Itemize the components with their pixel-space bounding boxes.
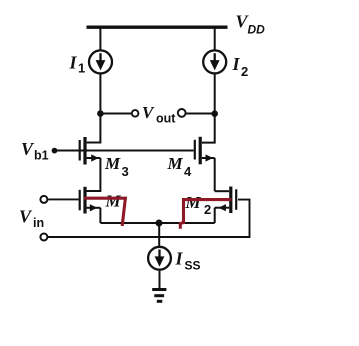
svg-text:2: 2	[241, 64, 248, 79]
svg-text:V: V	[21, 139, 35, 159]
transistor M4	[195, 114, 215, 165]
wire M1 source down to tail	[99, 208, 101, 223]
current source ISS	[148, 247, 171, 270]
M2 drain wire	[215, 190, 230, 192]
wire Vout+ terminal to node B	[185, 113, 214, 115]
M4 channel bar	[199, 137, 202, 165]
label Vin	[19, 207, 44, 231]
M1 source wire with arrow	[87, 207, 101, 209]
M2 channel bar	[229, 187, 232, 214]
terminal Vin+ open circle	[40, 196, 47, 203]
transistor M3	[80, 137, 101, 165]
svg-text:M: M	[167, 154, 184, 173]
svg-text:I: I	[175, 249, 184, 269]
svg-text:1: 1	[78, 61, 85, 76]
M4 drain wire to node B	[202, 114, 215, 143]
terminal Vout+ open circle	[178, 109, 186, 117]
svg-text:SS: SS	[185, 258, 201, 272]
label M4	[167, 154, 193, 179]
svg-text:V: V	[19, 207, 33, 227]
red annotation over M1	[84, 198, 125, 226]
M2 source wire with arrow	[215, 207, 230, 209]
svg-text:2: 2	[204, 202, 211, 217]
wire rail to I2	[214, 27, 216, 50]
M3 gate bar	[79, 140, 81, 161]
power rail VDD	[87, 26, 228, 29]
tail node junction dot	[156, 220, 163, 227]
M1 gate bar	[79, 190, 81, 211]
svg-text:M: M	[185, 193, 202, 212]
node B junction dot	[211, 110, 218, 117]
label I2	[232, 54, 249, 79]
wire M4 source to M2 drain	[214, 158, 216, 191]
label M3	[104, 154, 129, 179]
wire M2 source down to tail	[214, 208, 216, 223]
wire node A to M3 drain	[87, 114, 101, 143]
svg-text:b1: b1	[34, 149, 49, 163]
svg-text:in: in	[33, 216, 44, 230]
current source I1	[89, 50, 112, 73]
transistor M1	[80, 187, 101, 214]
wire ISS to ground	[159, 269, 161, 289]
wire tail node to ISS	[158, 223, 160, 247]
svg-text:V: V	[142, 103, 155, 122]
wire M3 source to M1 drain	[87, 158, 101, 191]
terminal Vin- open circle	[40, 234, 47, 241]
label M1	[105, 192, 122, 211]
svg-text:M: M	[104, 154, 121, 173]
svg-text:M: M	[105, 192, 122, 211]
wire Vin+ to M1 gate	[47, 198, 78, 200]
M4 gate bar	[194, 140, 196, 160]
terminal Vout- open circle	[132, 110, 139, 117]
svg-text:I: I	[69, 53, 78, 73]
ground	[152, 290, 166, 302]
svg-text:out: out	[156, 112, 176, 126]
transistor M2	[215, 187, 237, 214]
current source I2	[203, 50, 226, 73]
svg-text:I: I	[232, 54, 241, 74]
M4 source wire with arrow	[202, 157, 215, 159]
wire node A to Vout- terminal	[100, 113, 131, 115]
M3 source wire with arrow	[87, 157, 101, 159]
svg-text:3: 3	[122, 164, 129, 179]
wire I2 to node B	[214, 73, 216, 113]
M2 gate bar	[235, 189, 237, 210]
wire rail to I1	[99, 27, 101, 51]
red annotation over M2	[180, 200, 231, 229]
M1 channel bar	[83, 187, 86, 214]
junction dot at Vb1	[52, 148, 58, 154]
wire Vin- along bottom to M2 gate	[47, 200, 249, 237]
label M2	[185, 193, 212, 217]
node A junction dot	[97, 110, 104, 117]
M1 drain wire	[87, 190, 101, 192]
wire I1 to output node A	[99, 73, 101, 113]
label ISS	[175, 249, 201, 273]
svg-text:DD: DD	[248, 23, 266, 37]
bias line Vb1 to gates of M3 and M4	[55, 150, 194, 152]
label I1	[69, 53, 86, 76]
tail wire	[100, 222, 214, 224]
label Vb1	[21, 139, 49, 163]
M3 channel bar	[83, 137, 86, 165]
svg-text:4: 4	[184, 164, 192, 179]
label Vout	[142, 103, 176, 126]
label VDD	[236, 12, 266, 37]
